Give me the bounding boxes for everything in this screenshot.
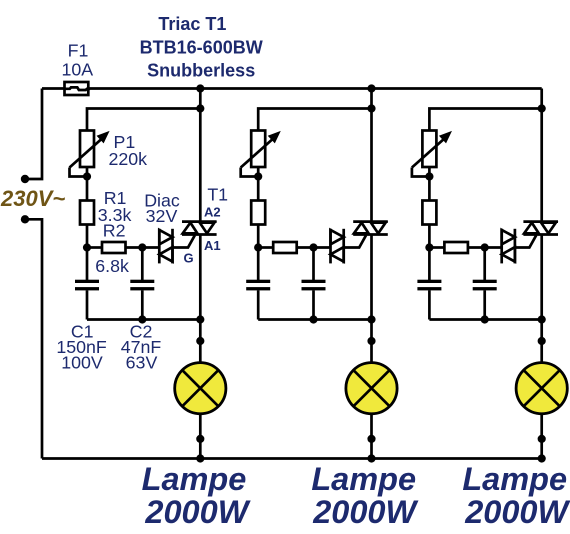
- svg-text:Lampe: Lampe: [462, 461, 567, 497]
- node: lamp column meets bottom rail channel 3: [538, 454, 546, 462]
- wire: capacitor bottoms to triac column channel 1: [87, 318, 200, 321]
- node: pot wiper junction channel 1: [83, 172, 91, 180]
- svg-text:100V: 100V: [61, 353, 103, 373]
- resistor (series, vertical) channel 3: [422, 201, 436, 225]
- node: lamp lower terminal channel 1: [196, 435, 204, 443]
- svg-text:T1: T1: [207, 185, 228, 205]
- triac channel 1: [182, 222, 217, 235]
- lamp symbol channel 2: [346, 363, 397, 414]
- svg-text:230V~: 230V~: [0, 186, 65, 211]
- svg-text:2000W: 2000W: [464, 494, 570, 530]
- wire: horizontal resistor to C2 node channel 1: [126, 246, 143, 249]
- wire: channel 1 upper rail from potentiometer to triac column: [87, 109, 200, 131]
- svg-text:Snubberless: Snubberless: [147, 60, 255, 80]
- node: RC left junction channel 2: [254, 243, 262, 251]
- resistor (horizontal) channel 1: [102, 242, 126, 253]
- wire: node to diac channel 3: [485, 246, 502, 249]
- wire: horizontal resistor to C2 node channel 2: [297, 246, 314, 249]
- node: channel 3 upper-rail junction on triac column: [538, 104, 546, 112]
- svg-text:F1: F1: [68, 41, 89, 61]
- wire: triac A1 down to bottom rail channel 1: [199, 235, 202, 459]
- capacitor C-right channel 3: [483, 248, 486, 281]
- svg-text:A1: A1: [204, 238, 221, 253]
- node: RC left junction channel 1: [83, 243, 91, 251]
- diac channel 2: [331, 229, 344, 264]
- node: top rail junction triac column 2: [367, 84, 375, 92]
- svg-text:Lampe: Lampe: [311, 461, 416, 497]
- wire: bottom return rail: [42, 457, 542, 460]
- node: cap-bus meets triac column channel 2: [367, 315, 375, 323]
- wire: triac column from top rail to triac channel 3: [540, 89, 543, 222]
- node: top rail junction triac column 1: [196, 84, 204, 92]
- node: lamp upper terminal channel 3: [538, 337, 546, 345]
- svg-text:2000W: 2000W: [144, 494, 250, 530]
- wire to horizontal resistor channel 3: [429, 246, 444, 249]
- wire: node to diac channel 2: [314, 246, 331, 249]
- potentiometer body channel 3: [422, 131, 436, 168]
- svg-text:Triac T1: Triac T1: [158, 14, 226, 34]
- wire: capacitor bottoms to triac column channel 3: [429, 318, 541, 321]
- resistor (horizontal) channel 3: [444, 242, 468, 253]
- node: RC left junction channel 3: [425, 243, 433, 251]
- wire: wiper tied to lower pot terminal channel 3: [412, 168, 430, 177]
- svg-text:Lampe: Lampe: [142, 461, 247, 497]
- node: C2 junction channel 3: [481, 243, 489, 251]
- terminal: mains upper: [21, 175, 29, 183]
- node: lamp lower terminal channel 2: [367, 435, 375, 443]
- wire: left drop to upper mains terminal: [25, 89, 42, 180]
- node: cap-bus meets triac column channel 3: [538, 315, 546, 323]
- triac channel 3: [523, 222, 558, 235]
- svg-text:2000W: 2000W: [312, 494, 418, 530]
- wire: capacitor bottoms to triac column channel 2: [258, 318, 371, 321]
- wire to horizontal resistor channel 1: [87, 246, 102, 249]
- node: channel 2 upper-rail junction on triac column: [367, 104, 375, 112]
- diac channel 1: [159, 229, 172, 264]
- wire: channel 3 upper rail from potentiometer to triac column: [429, 109, 541, 131]
- node: cap-bus / C2 bottom channel 2: [309, 315, 317, 323]
- wire: node to diac channel 1: [142, 246, 159, 249]
- node: pot wiper junction channel 3: [425, 172, 433, 180]
- wire: diac to triac gate channel 2: [344, 235, 366, 247]
- node: pot wiper junction channel 2: [254, 172, 262, 180]
- svg-text:A2: A2: [204, 204, 221, 219]
- node: lamp upper terminal channel 2: [367, 337, 375, 345]
- node: lamp lower terminal channel 3: [538, 435, 546, 443]
- resistor (horizontal) channel 2: [273, 242, 297, 253]
- wire: channel 2 upper rail from potentiometer to triac column: [258, 109, 371, 131]
- wire: diac to triac gate channel 3: [515, 235, 536, 247]
- capacitor C-left channel 1: [86, 248, 89, 281]
- capacitor C-left channel 2: [257, 248, 260, 281]
- node: C2 junction channel 1: [138, 243, 146, 251]
- wire: triac A1 down to bottom rail channel 2: [370, 235, 373, 459]
- wire: triac column from top rail to triac channel 1: [199, 89, 202, 222]
- svg-text:6.8k: 6.8k: [95, 256, 129, 276]
- wire: resistor to RC node channel 2: [257, 225, 260, 248]
- wire to horizontal resistor channel 2: [258, 246, 273, 249]
- wire: resistor to RC node channel 3: [428, 225, 431, 248]
- node: channel 1 upper-rail junction on triac column: [196, 104, 204, 112]
- node: cap-bus / C2 bottom channel 3: [481, 315, 489, 323]
- capacitor C-right channel 1: [141, 248, 144, 281]
- node: cap-bus / C2 bottom channel 1: [138, 315, 146, 323]
- wire: pot to series resistor channel 3: [428, 167, 431, 201]
- potentiometer wiper arrow channel 2: [241, 139, 273, 168]
- lamp symbol channel 3: [516, 363, 567, 414]
- terminal: mains lower: [21, 215, 29, 223]
- svg-text:BTB16-600BW: BTB16-600BW: [140, 38, 263, 58]
- wire: pot to series resistor channel 1: [86, 167, 89, 201]
- triac channel 2: [353, 222, 388, 235]
- potentiometer wiper arrow channel 1: [70, 139, 102, 168]
- node: lamp upper terminal channel 1: [196, 337, 204, 345]
- wire: triac column from top rail to triac channel 2: [370, 89, 373, 222]
- node: cap-bus meets triac column channel 1: [196, 315, 204, 323]
- potentiometer body channel 2: [251, 131, 265, 168]
- lamp symbol channel 1: [175, 363, 226, 414]
- svg-text:32V: 32V: [146, 206, 178, 226]
- potentiometer wiper arrow channel 3: [412, 139, 444, 168]
- wire: wiper tied to lower pot terminal channel 1: [70, 168, 88, 177]
- svg-text:G: G: [184, 250, 194, 265]
- potentiometer body channel 1: [80, 131, 94, 168]
- node: lamp column meets bottom rail channel 1: [196, 454, 204, 462]
- svg-text:220k: 220k: [109, 149, 148, 169]
- wire: diac to triac gate channel 1: [173, 235, 195, 247]
- wire: top supply rail: [42, 87, 542, 90]
- capacitor C-left channel 3: [428, 248, 431, 281]
- wire: wiper tied to lower pot terminal channel 2: [241, 168, 259, 177]
- wire: resistor to RC node channel 1: [86, 225, 89, 248]
- wire: pot to series resistor channel 2: [257, 167, 260, 201]
- wire: triac A1 down to bottom rail channel 3: [540, 235, 543, 459]
- wire: horizontal resistor to C2 node channel 3: [468, 246, 485, 249]
- resistor (series, vertical) channel 2: [251, 201, 265, 225]
- svg-text:R2: R2: [103, 220, 126, 240]
- wire: lower mains terminal to bottom rail: [25, 219, 42, 458]
- svg-text:10A: 10A: [61, 59, 93, 79]
- capacitor C-right channel 2: [312, 248, 315, 281]
- fuse F1: [65, 82, 89, 95]
- node: lamp column meets bottom rail channel 2: [367, 454, 375, 462]
- diac channel 3: [502, 229, 515, 264]
- svg-text:63V: 63V: [126, 353, 158, 373]
- node: C2 junction channel 2: [309, 243, 317, 251]
- resistor (series, vertical) channel 1: [80, 201, 94, 225]
